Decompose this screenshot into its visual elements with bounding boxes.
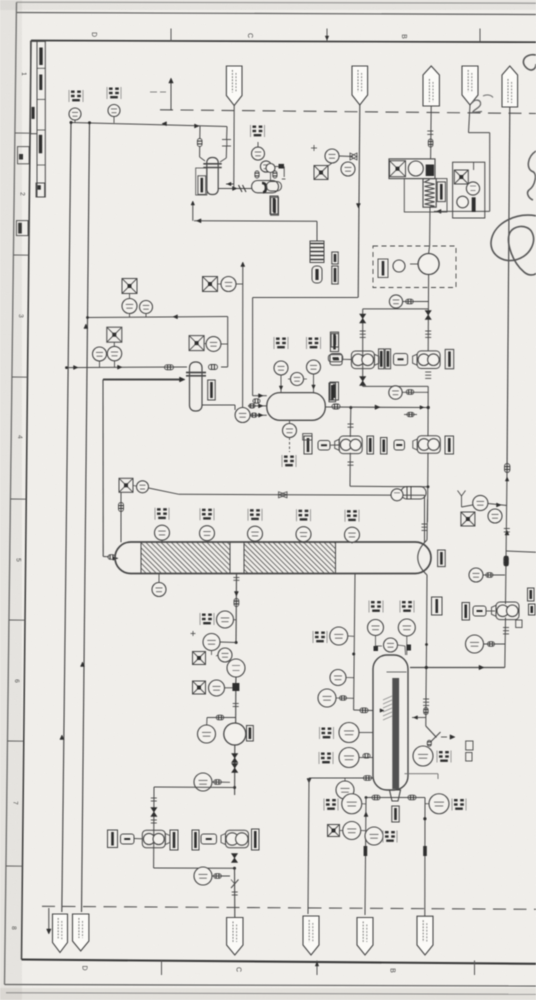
svg-text:C: C — [246, 33, 253, 38]
svg-text:B: B — [389, 968, 396, 973]
svg-text:C: C — [235, 967, 242, 972]
svg-text:B: B — [400, 34, 407, 39]
svg-text:D: D — [81, 965, 88, 970]
svg-text:D: D — [90, 32, 97, 37]
